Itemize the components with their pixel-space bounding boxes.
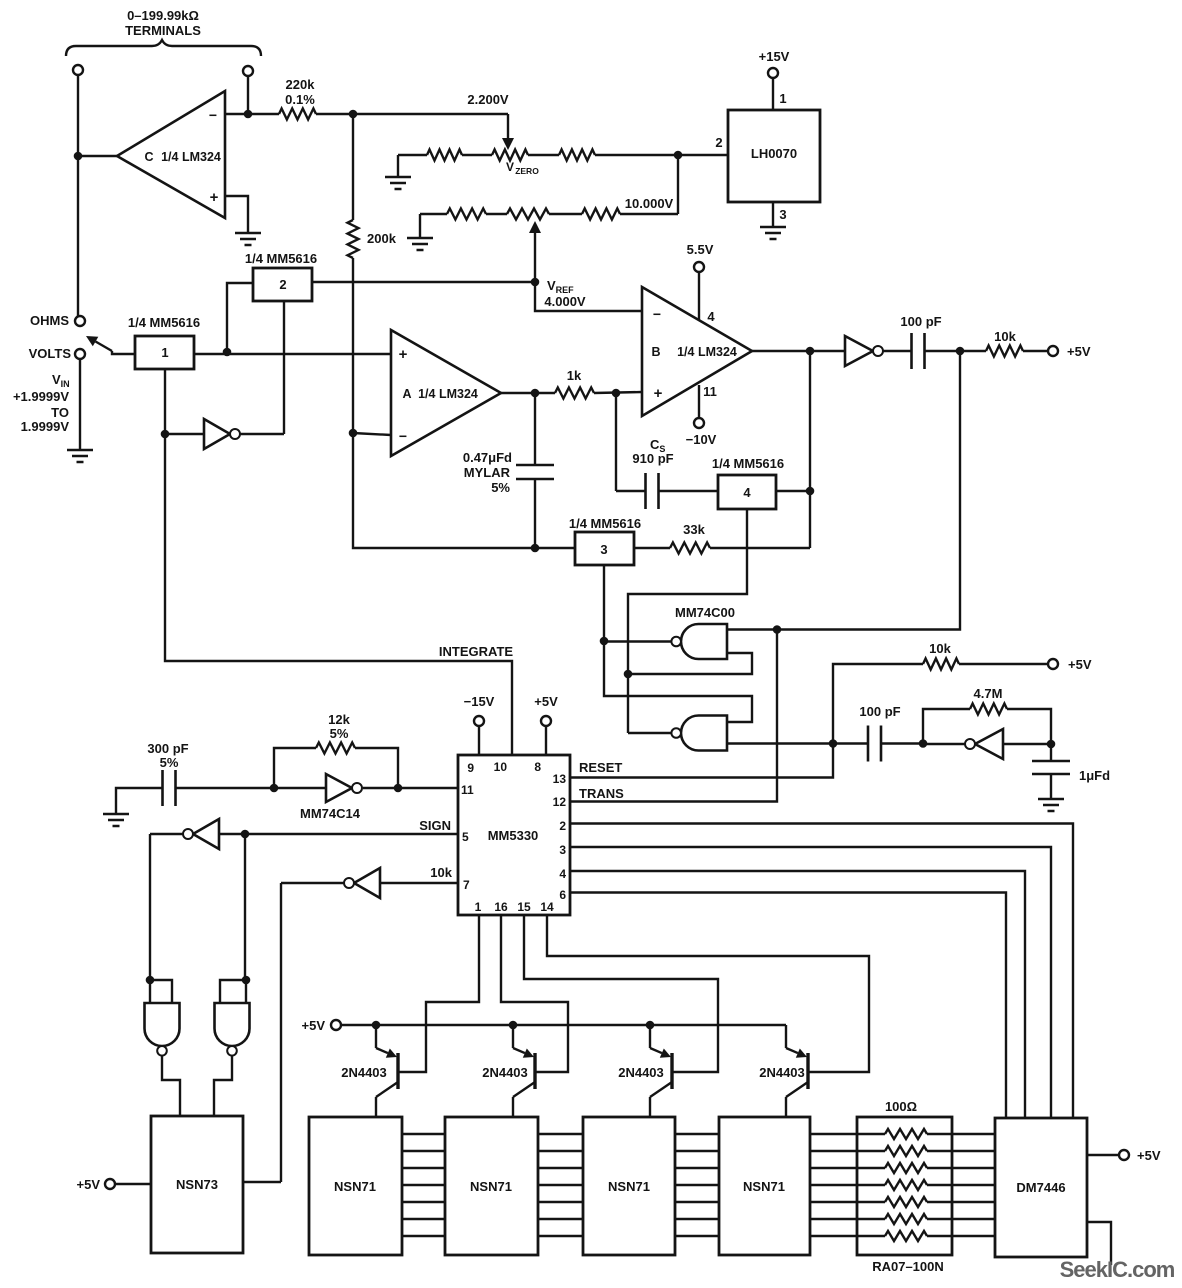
- wire box4 pin to latch: [628, 509, 747, 733]
- svg-text:+5V: +5V: [1067, 344, 1091, 359]
- svg-text:SIGN: SIGN: [419, 818, 451, 833]
- svg-text:TO: TO: [51, 405, 69, 420]
- node Q1 emitter: [372, 1021, 381, 1030]
- svg-text:VOLTS: VOLTS: [29, 346, 72, 361]
- svg-text:2: 2: [279, 277, 286, 292]
- wire nand1 input a: [727, 628, 777, 630]
- transistor Q2 2N4403: [512, 1025, 514, 1048]
- svg-text:12k: 12k: [328, 712, 350, 727]
- wire 1k to op-amp B: [594, 392, 642, 393]
- svg-text:+: +: [399, 346, 408, 363]
- switch MM5616-3: [575, 532, 634, 565]
- node after 100pF: [956, 347, 965, 356]
- svg-text:+: +: [654, 385, 663, 402]
- wire nand1 output: [604, 640, 672, 642]
- node op-amp A inv input: [349, 429, 358, 438]
- wire gateB inputs: [220, 980, 246, 1003]
- svg-text:+: +: [210, 189, 219, 206]
- wire comparator line down: [777, 351, 960, 630]
- svg-text:MM74C00: MM74C00: [675, 605, 735, 620]
- svg-text:10: 10: [494, 760, 508, 774]
- op-amp U-B 1/4 LM324: [642, 287, 752, 416]
- resistor 10k top: [960, 350, 986, 352]
- svg-text:3: 3: [559, 843, 566, 857]
- wire nand1 out to nand2 in: [604, 641, 752, 722]
- wire nand1 input b U: [628, 653, 752, 674]
- wire box1 to op-amp A: [194, 353, 391, 355]
- svg-text:1μFd: 1μFd: [1079, 768, 1110, 783]
- ground 300pF: [103, 813, 129, 816]
- svg-text:2: 2: [559, 819, 566, 833]
- nand gate A: [145, 1003, 180, 1046]
- wire left terminal down: [77, 75, 79, 316]
- nand gate B: [215, 1003, 250, 1046]
- svg-text:TRANS: TRANS: [579, 786, 624, 801]
- op-amp U-A 1/4 LM324: [391, 330, 501, 456]
- svg-text:1/4 LM324: 1/4 LM324: [161, 150, 221, 164]
- svg-text:1/4 MM5616: 1/4 MM5616: [569, 516, 641, 531]
- svg-text:−10V: −10V: [686, 432, 717, 447]
- wire pin4 op-amp B: [698, 272, 700, 320]
- wire 200k continue down: [352, 282, 354, 433]
- node box1 bottom: [161, 430, 170, 439]
- wire 200k down: [352, 258, 354, 282]
- terminal ohms input right: [243, 66, 253, 76]
- node gateB input: [242, 976, 251, 985]
- wire pin11 op-amp B: [698, 385, 700, 418]
- svg-text:33k: 33k: [683, 522, 705, 537]
- svg-text:9: 9: [467, 761, 474, 775]
- terminal +5V top right: [1048, 346, 1058, 356]
- svg-text:TERMINALS: TERMINALS: [125, 23, 201, 38]
- svg-text:−15V: −15V: [464, 694, 495, 709]
- svg-text:A: A: [402, 387, 411, 401]
- svg-text:1.9999V: 1.9999V: [21, 419, 70, 434]
- svg-text:DM7446: DM7446: [1016, 1180, 1065, 1195]
- wire op-amp C output: [78, 155, 117, 157]
- svg-text:2N4403: 2N4403: [618, 1065, 664, 1080]
- wire 1k node down: [615, 393, 617, 491]
- wire op-amp B output: [752, 350, 845, 352]
- inverter box1-box2: [165, 433, 204, 435]
- wire NSN73 right: [243, 1181, 281, 1183]
- svg-text:14: 14: [540, 900, 554, 914]
- terminal VOLTS: [75, 349, 85, 359]
- svg-text:6: 6: [559, 888, 566, 902]
- svg-text:220k: 220k: [286, 77, 316, 92]
- svg-text:NSN73: NSN73: [176, 1177, 218, 1192]
- ground 1uFd: [1038, 798, 1064, 801]
- resistor 200k: [352, 114, 354, 220]
- wire op-amp B out down: [809, 351, 811, 491]
- ground Vin: [67, 449, 93, 452]
- svg-text:SeekIC.com: SeekIC.com: [1060, 1257, 1175, 1282]
- wire 220k to node: [316, 113, 353, 115]
- node pin11 left: [394, 784, 403, 793]
- node box4 right: [806, 487, 815, 496]
- svg-text:100 pF: 100 pF: [859, 704, 900, 719]
- wire gateA inputs: [150, 980, 172, 1003]
- inverter sign: [193, 819, 219, 849]
- wire box3 pin down: [603, 565, 605, 641]
- capacitor 1uFd: [1050, 744, 1052, 761]
- svg-text:5: 5: [462, 830, 469, 844]
- svg-text:10k: 10k: [929, 641, 951, 656]
- svg-text:MM74C14: MM74C14: [300, 806, 361, 821]
- node nand latch cross: [624, 670, 633, 679]
- IC MM5330: [458, 755, 570, 915]
- svg-text:1/4 MM5616: 1/4 MM5616: [128, 315, 200, 330]
- svg-text:200k: 200k: [367, 231, 397, 246]
- node inverter input: [1047, 740, 1056, 749]
- node 1k right: [612, 389, 621, 398]
- resistor 220k 0.1%: [279, 109, 316, 120]
- wire box2 left: [227, 283, 253, 352]
- svg-text:0.1%: 0.1%: [285, 92, 315, 107]
- resistor 4.7M: [923, 709, 970, 744]
- svg-text:MM5330: MM5330: [488, 828, 539, 843]
- svg-text:+5V: +5V: [534, 694, 558, 709]
- svg-text:2: 2: [715, 135, 722, 150]
- terminal +5V mid right: [1048, 659, 1058, 669]
- svg-text:+15V: +15V: [759, 49, 790, 64]
- svg-text:4.000V: 4.000V: [544, 294, 586, 309]
- wire op-amp A output: [501, 392, 535, 394]
- svg-text:11: 11: [461, 783, 474, 797]
- node nand1 output: [600, 637, 609, 646]
- svg-text:NSN71: NSN71: [334, 1179, 376, 1194]
- svg-text:+1.9999V: +1.9999V: [13, 389, 69, 404]
- svg-text:NSN71: NSN71: [743, 1179, 785, 1194]
- potentiometer Vzero: [492, 150, 528, 161]
- svg-text:2N4403: 2N4403: [759, 1065, 805, 1080]
- svg-text:+5V: +5V: [77, 1177, 101, 1192]
- svg-text:5%: 5%: [491, 480, 510, 495]
- wire +15V to LH0070 pin1: [772, 78, 774, 110]
- terminal ohms input left: [73, 65, 83, 75]
- switch arrow to OHMS: [96, 341, 112, 351]
- resistor Vref right: [582, 209, 620, 220]
- svg-text:15: 15: [517, 900, 531, 914]
- svg-text:0.47μFd: 0.47μFd: [463, 450, 512, 465]
- svg-text:16: 16: [494, 900, 508, 914]
- transistor Q1 2N4403: [375, 1025, 377, 1048]
- op-amp U-C 1/4 LM324: [117, 91, 225, 218]
- resistor 10k pullup: [833, 664, 923, 744]
- svg-text:0–199.99kΩ: 0–199.99kΩ: [127, 8, 199, 23]
- svg-text:7: 7: [463, 878, 470, 892]
- terminal -10V: [694, 418, 704, 428]
- svg-text:4.7M: 4.7M: [974, 686, 1003, 701]
- svg-text:300 pF: 300 pF: [147, 741, 188, 756]
- svg-text:+5V: +5V: [302, 1018, 326, 1033]
- node Vzero output: [674, 151, 683, 160]
- node Q2 emitter: [509, 1021, 518, 1030]
- inverter pin7: [354, 868, 380, 898]
- nand gate MM74C00-1: [681, 624, 727, 659]
- wire nand2 input b: [728, 742, 833, 744]
- node op-amp A output: [531, 389, 540, 398]
- IC LH0070: [728, 110, 820, 202]
- svg-text:5%: 5%: [160, 755, 179, 770]
- wire op-amp C inv input: [225, 113, 279, 115]
- wire pin8: [545, 726, 547, 755]
- node inverter output: [919, 739, 928, 748]
- node Vref: [531, 278, 540, 287]
- node 220k right: [349, 110, 358, 119]
- svg-text:RA07–100N: RA07–100N: [872, 1259, 944, 1274]
- svg-text:5.5V: 5.5V: [687, 242, 714, 257]
- svg-text:B: B: [651, 345, 660, 359]
- wire pin15 to Q3 base: [524, 915, 718, 1072]
- wire DM7446 lower pin: [1087, 1222, 1111, 1265]
- node op-amp C inv input: [244, 110, 253, 119]
- transistor Q4 2N4403: [785, 1025, 787, 1048]
- wire gateB output: [214, 1057, 232, 1117]
- display NSN71 digit1: [309, 1117, 402, 1255]
- wire box1 bottom pin: [164, 369, 166, 434]
- resistor 1k: [535, 392, 555, 394]
- svg-text:910 pF: 910 pF: [632, 451, 673, 466]
- wire 2.200V line: [353, 113, 508, 115]
- resistor Vref left: [447, 209, 486, 220]
- wire right terminal down: [247, 76, 249, 114]
- node nand1 input a: [773, 625, 782, 634]
- switch MM5616-1: [135, 336, 194, 369]
- svg-text:−: −: [399, 428, 407, 444]
- arrow Vref wiper: [534, 233, 536, 282]
- svg-text:MYLAR: MYLAR: [464, 465, 511, 480]
- node op-amp C output: [74, 152, 83, 161]
- resistor 33k: [634, 547, 670, 549]
- resistor 12k 5%: [274, 748, 316, 788]
- node Q3 emitter: [646, 1021, 655, 1030]
- ground LH0070: [760, 226, 786, 229]
- svg-text:3: 3: [600, 542, 607, 557]
- svg-text:1/4 LM324: 1/4 LM324: [418, 387, 478, 401]
- svg-text:+5V: +5V: [1137, 1148, 1161, 1163]
- potentiometer Vref: [507, 209, 549, 220]
- svg-text:1: 1: [475, 900, 482, 914]
- svg-text:ZERO: ZERO: [515, 166, 539, 176]
- resistor Vzero left: [427, 150, 462, 161]
- inverter MM74C14: [274, 787, 326, 789]
- arrow 2.200V wiper: [507, 114, 509, 138]
- nand gate MM74C00-2: [681, 716, 727, 751]
- wire INTEGRATE: [165, 434, 512, 755]
- svg-text:LH0070: LH0070: [751, 146, 797, 161]
- svg-text:8: 8: [534, 760, 541, 774]
- svg-text:1/4 MM5616: 1/4 MM5616: [712, 456, 784, 471]
- node sign junction: [241, 830, 250, 839]
- wire pin7 inverter down: [280, 883, 282, 1182]
- terminal OHMS: [75, 316, 85, 326]
- inverter oscillator: [923, 743, 965, 745]
- svg-text:−: −: [653, 306, 661, 322]
- wire sign inverter down: [149, 834, 151, 980]
- svg-text:2N4403: 2N4403: [341, 1065, 387, 1080]
- wire nand2 output: [628, 732, 672, 734]
- terminal +5V DM7446: [1087, 1154, 1119, 1156]
- display driver NSN73: [151, 1116, 243, 1253]
- svg-text:+5V: +5V: [1068, 657, 1092, 672]
- svg-text:NSN71: NSN71: [470, 1179, 512, 1194]
- node 12k left: [270, 784, 279, 793]
- wire 300pF to ground: [116, 788, 162, 814]
- svg-text:4: 4: [559, 867, 566, 881]
- wire VOLTS to ground: [79, 359, 81, 450]
- svg-text:10.000V: 10.000V: [625, 196, 674, 211]
- svg-text:1/4 MM5616: 1/4 MM5616: [245, 251, 317, 266]
- IC DM7446: [995, 1118, 1087, 1257]
- resistor network RA07-100N: [857, 1117, 952, 1255]
- svg-text:3: 3: [779, 207, 786, 222]
- wire op-amp C noninv to ground: [225, 196, 248, 233]
- inverter after op-amp B: [845, 336, 873, 366]
- svg-text:2N4403: 2N4403: [482, 1065, 528, 1080]
- wire pin14 to Q4 base: [547, 915, 869, 1072]
- node mylar bottom: [531, 544, 540, 553]
- switch MM5616-4: [718, 475, 776, 509]
- bracket brace: [66, 40, 261, 56]
- transistor Q3 2N4403: [649, 1025, 651, 1048]
- node op-amp B output: [806, 347, 815, 356]
- svg-text:NSN71: NSN71: [608, 1179, 650, 1194]
- display NSN71 digit2: [445, 1117, 538, 1255]
- wire 10.000V up to node: [677, 155, 679, 214]
- node reset junction: [829, 739, 838, 748]
- svg-text:2.200V: 2.200V: [467, 92, 509, 107]
- svg-text:11: 11: [703, 384, 717, 399]
- svg-text:INTEGRATE: INTEGRATE: [439, 644, 513, 659]
- svg-text:5%: 5%: [330, 726, 349, 741]
- resistor Vzero right: [559, 150, 595, 161]
- node gateA input: [146, 976, 155, 985]
- wire node to LH0070 pin2: [678, 154, 728, 156]
- node box1 output: [223, 348, 232, 357]
- ground Vref pot: [419, 214, 421, 238]
- svg-text:100Ω: 100Ω: [885, 1099, 917, 1114]
- ground op-amp C: [235, 232, 261, 235]
- svg-text:C: C: [144, 150, 153, 164]
- wire gateA output: [162, 1057, 180, 1117]
- wire pin9: [478, 726, 480, 755]
- svg-text:RESET: RESET: [579, 760, 622, 775]
- display NSN71 digit3: [583, 1117, 675, 1255]
- wire sign node down: [244, 834, 246, 980]
- wire Vref to op-amp B inv: [535, 282, 642, 311]
- bus lines displays: [402, 1133, 995, 1135]
- wire LH0070 pin3 ground: [772, 202, 774, 227]
- wire op-amp A inv input: [353, 433, 391, 435]
- wire 200k to box3: [353, 433, 575, 548]
- svg-text:10k: 10k: [430, 865, 452, 880]
- switch MM5616-2: [253, 268, 312, 301]
- svg-text:100 pF: 100 pF: [900, 314, 941, 329]
- wire pin1 to Q1 base: [399, 915, 479, 1072]
- svg-text:1/4 LM324: 1/4 LM324: [677, 345, 737, 359]
- svg-text:13: 13: [553, 772, 567, 786]
- svg-text:1k: 1k: [567, 368, 582, 383]
- svg-text:12: 12: [553, 795, 567, 809]
- svg-text:OHMS: OHMS: [30, 313, 69, 328]
- svg-text:1: 1: [779, 91, 786, 106]
- svg-text:−: −: [209, 107, 217, 123]
- svg-text:1: 1: [161, 345, 168, 360]
- svg-text:4: 4: [743, 485, 751, 500]
- wire pin16 to Q2 base: [501, 915, 568, 1072]
- wire Vref line: [312, 281, 535, 283]
- svg-text:4: 4: [707, 309, 715, 324]
- svg-text:10k: 10k: [994, 329, 1016, 344]
- display NSN71 digit4: [719, 1117, 810, 1255]
- ground Vzero pot: [397, 155, 399, 177]
- wire box4 right: [776, 490, 810, 492]
- svg-text:V: V: [506, 160, 514, 174]
